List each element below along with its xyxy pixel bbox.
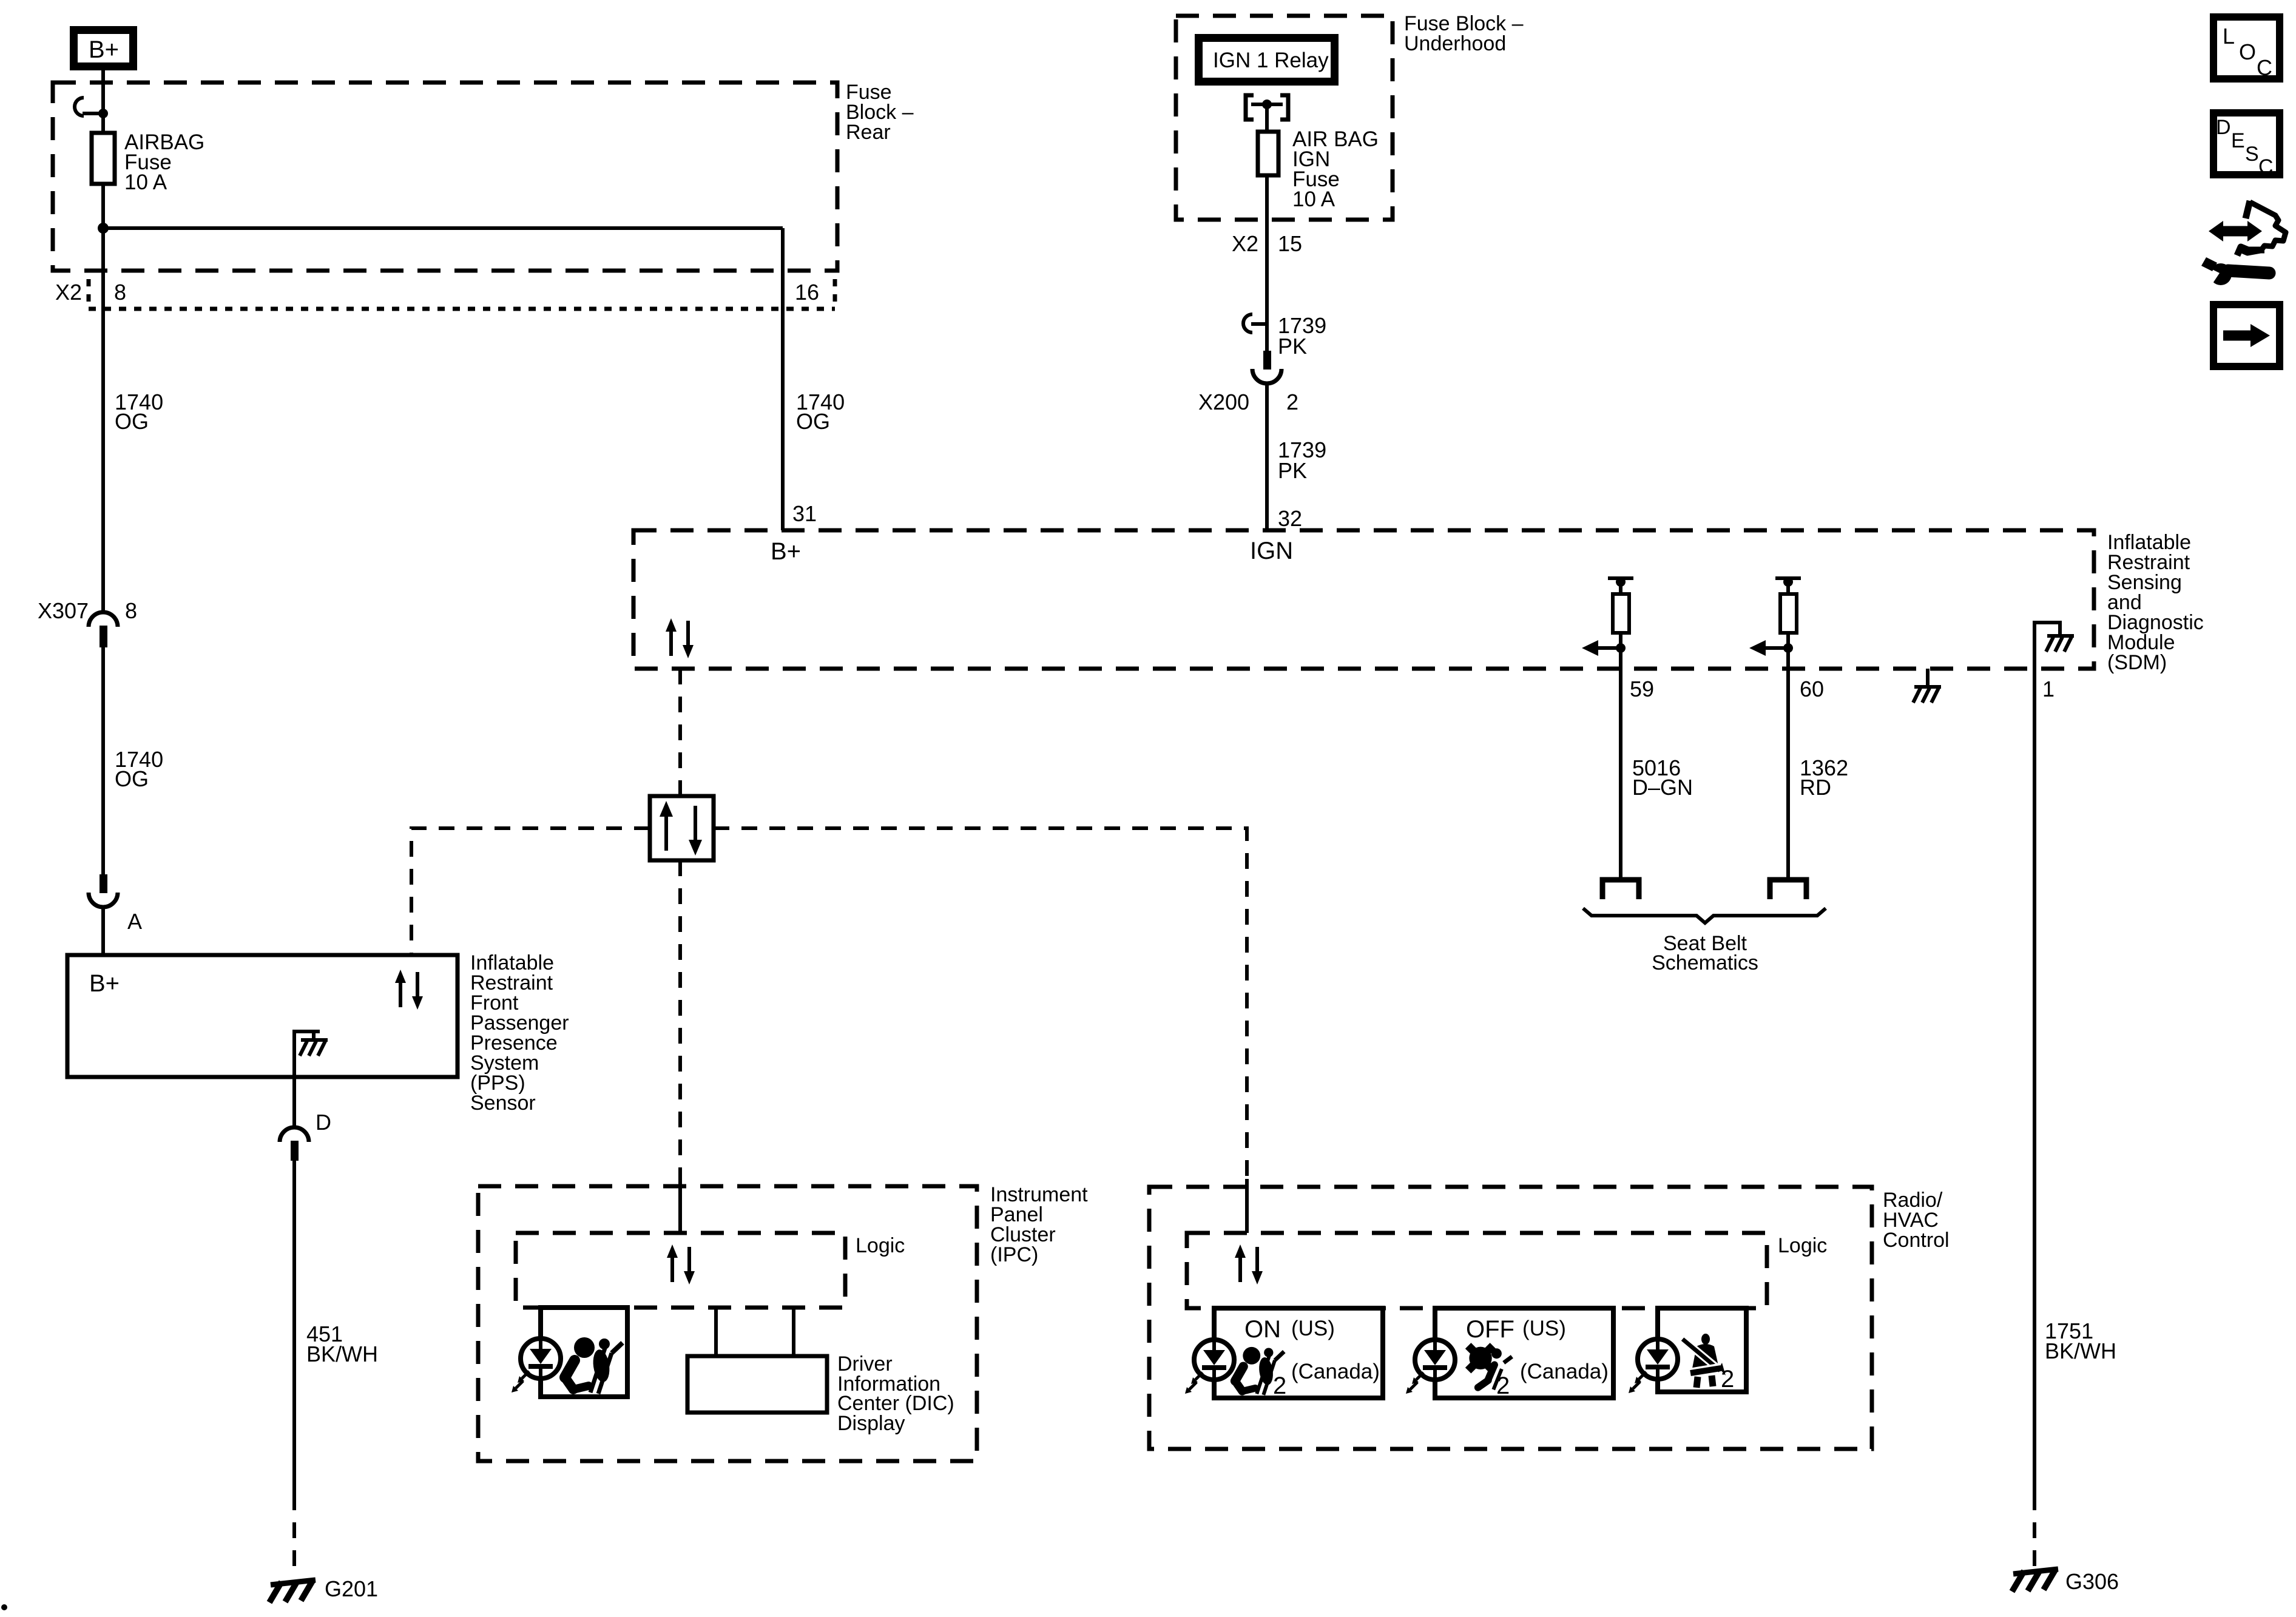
fuse block underhood box [1176,16,1393,220]
passenger airbag ON indicator cell [1214,1308,1383,1398]
wire label 1751 BK/WH [2045,1318,2116,1363]
svg-text:(Canada): (Canada) [1291,1360,1380,1383]
seat belt icon 2 [1683,1334,1734,1393]
svg-text:E: E [2231,129,2245,152]
wire label 1739 PK upper [1278,313,1326,359]
svg-text:Logic: Logic [856,1234,905,1257]
ON indicator LED [1194,1340,1234,1380]
power terminal B+ [74,30,133,67]
wire B+ to AIRBAG fuse [101,70,105,133]
DIC display legs [716,1308,794,1356]
ON label [1244,1316,1380,1383]
serial wire gateway to IPC [678,860,682,1179]
svg-text:(US): (US) [1522,1317,1566,1340]
SDM resistor at pin 59 [1582,577,1633,669]
radio HVAC label [1883,1189,1950,1252]
serial right branch solid entry [1245,1179,1249,1233]
svg-text:G201: G201 [325,1576,378,1601]
wire relay to AIR BAG IGN fuse [1265,104,1269,132]
wire X307 to A [101,647,105,874]
radio logic box [1187,1233,1767,1308]
AIR BAG IGN fuse label [1292,127,1379,211]
AIRBAG fuse label [124,130,204,194]
svg-text:32: 32 [1278,506,1302,531]
serial data gateway box [650,796,714,860]
serial wire SDM to gateway [678,669,682,796]
junction dot fuse feed [98,109,108,118]
wire X200 to SDM pin 32 [1265,383,1269,530]
PPS serial data arrows [395,970,423,1010]
ON airbag icon 2 [1235,1347,1287,1399]
svg-text:Sensor: Sensor [470,1092,536,1115]
wire 1751 BK/WH [2033,669,2036,1573]
SDM serial data arrows [666,618,694,658]
svg-text:C: C [2258,155,2274,178]
PPS internal ground [294,1031,328,1077]
radio HVAC module box [1149,1187,1872,1449]
svg-text:Schematics: Schematics [1652,951,1758,974]
wire pin 8 down from junction [101,228,105,614]
svg-text:2: 2 [1286,390,1298,414]
svg-text:OFF: OFF [1466,1316,1514,1343]
svg-text:Display: Display [837,1412,905,1435]
belt LED light rays [1629,1372,1646,1393]
DIC display box [687,1356,827,1413]
label X2 pin 8 pin 16 [55,280,819,305]
svg-text:2: 2 [1273,1372,1286,1399]
svg-text:(SDM): (SDM) [2107,651,2167,674]
PPS sensor label [470,951,569,1115]
service icon hand outline [2237,201,2286,255]
IPC module box [478,1186,977,1461]
page dot [1,1604,7,1610]
svg-text:G306: G306 [2065,1569,2119,1594]
svg-text:X2: X2 [1232,231,1258,256]
ground G306 [2012,1569,2119,1594]
svg-text:1: 1 [2042,677,2055,701]
svg-text:X200: X200 [1198,390,1249,414]
IPC logic serial arrows [667,1244,695,1284]
svg-text:PK: PK [1278,334,1307,359]
connector D [280,1110,331,1161]
service icon wrench [2198,257,2269,285]
SDM resistor at pin 60 [1749,577,1801,669]
svg-text:ON: ON [1244,1316,1281,1343]
svg-text:Rear: Rear [846,121,891,144]
pin labels 59 60 1 [1630,677,2055,701]
IGN 1 Relay box [1199,38,1335,82]
svg-text:B+: B+ [89,36,119,63]
svg-text:BK/WH: BK/WH [2045,1338,2116,1363]
svg-text:59: 59 [1630,677,1654,701]
wire label 451 BK/WH [306,1322,378,1366]
next page arrow icon [2213,305,2280,366]
svg-text:(US): (US) [1291,1317,1335,1340]
serial bus right branch to radio [714,828,1247,1179]
svg-text:OG: OG [115,766,149,791]
wire PPS to D [292,1077,296,1127]
belt indicator LED [1638,1339,1678,1379]
svg-text:D: D [2216,116,2231,139]
svg-text:Logic: Logic [1778,1234,1827,1257]
seat belt schematics label [1652,932,1758,974]
svg-text:L: L [2223,24,2235,49]
OFF crossed airbag icon 2 [1468,1346,1512,1399]
svg-text:D: D [316,1110,331,1135]
connector X2 dotted line [89,279,835,309]
wire pin 16 down to SDM pin 31 [781,228,785,530]
svg-text:OG: OG [115,409,149,434]
wire label 1739 PK lower [1278,437,1326,483]
IPC LED light rays [512,1371,529,1393]
svg-text:IGN: IGN [1250,538,1293,564]
IPC airbag indicator cell [541,1308,627,1397]
clip terminal at X200 [1243,314,1266,333]
SDM pin 1 internal ground [2034,623,2074,669]
wire 1362 RD [1786,669,1790,877]
wire fuse to X200 [1265,175,1269,351]
wire A to PPS box [101,907,105,955]
seat belt indicator cell [1658,1308,1746,1392]
svg-text:Underhood: Underhood [1404,32,1506,55]
wire label 1740 OG left lower [115,747,163,791]
svg-text:S: S [2245,143,2259,166]
IPC logic box [516,1233,845,1308]
svg-text:A: A [127,909,142,934]
svg-text:2: 2 [1721,1366,1734,1393]
fuse block rear box [53,83,837,271]
serial IPC solid entry [678,1179,682,1233]
wire label 1740 OG right [796,390,845,434]
wire label 5016 D-GN [1632,755,1693,800]
fuse AIR BAG IGN 10A [1258,132,1278,175]
svg-text:(IPC): (IPC) [990,1243,1038,1266]
wire label 1740 OG left upper [115,390,163,434]
svg-text:2: 2 [1496,1372,1510,1399]
junction dot B+ bus [98,223,109,234]
svg-text:16: 16 [795,280,819,305]
OFF LED light rays [1406,1372,1423,1394]
relay terminal brackets [1246,95,1288,120]
wire fuse to junction [101,184,105,228]
svg-text:OG: OG [796,409,830,434]
LOC icon [2213,17,2280,80]
svg-text:8: 8 [114,280,126,305]
SDM label [2107,531,2204,674]
svg-text:BK/WH: BK/WH [306,1342,378,1366]
wire 451 BK/WH [292,1161,296,1574]
wire label 1362 RD [1800,755,1848,800]
SDM case ground on bottom edge [1913,669,1941,703]
OFF indicator LED [1415,1340,1455,1380]
svg-text:IGN 1 Relay: IGN 1 Relay [1213,49,1329,72]
label X2 pin 15 [1232,231,1302,256]
svg-text:10 A: 10 A [124,170,167,194]
svg-text:X307: X307 [38,598,89,623]
DIC label [837,1352,954,1435]
IPC indicator LED [521,1338,561,1379]
IPC airbag warning icon [565,1337,623,1394]
ON LED light rays [1185,1372,1203,1394]
DESC icon [2213,113,2280,178]
fuse block underhood label [1404,12,1524,55]
inline connector A at PPS [89,874,142,934]
svg-text:PK: PK [1278,458,1307,483]
passenger airbag OFF indicator cell [1435,1308,1613,1398]
PPS sensor box [67,955,458,1077]
wire 5016 D-GN [1619,669,1622,877]
bus wire to pin 16 branch [103,226,783,230]
SDM module box [633,530,2094,669]
fuse block rear label [846,81,914,144]
svg-text:8: 8 [125,598,137,623]
svg-text:15: 15 [1278,231,1302,256]
fuse AIRBAG 10A [92,133,115,184]
svg-text:Control: Control [1883,1229,1950,1252]
seat belt harness connector 60 [1770,880,1806,899]
inline connector X307 pin 8 [38,598,137,647]
svg-text:60: 60 [1800,677,1824,701]
svg-text:31: 31 [792,501,817,526]
clip terminal at AIRBAG fuse [75,98,102,116]
ground G201 [269,1576,378,1602]
IPC label [990,1183,1088,1266]
serial bus left branch to PPS [411,828,650,955]
OFF label [1466,1316,1609,1383]
svg-text:B+: B+ [771,538,801,565]
inline connector X200 pin 2 [1198,351,1298,414]
svg-text:C: C [2257,55,2272,80]
service icon double arrow [2209,221,2262,241]
svg-text:D–GN: D–GN [1632,775,1693,800]
svg-text:X2: X2 [55,280,82,305]
svg-text:O: O [2239,39,2256,64]
svg-text:(Canada): (Canada) [1520,1360,1609,1383]
radio logic serial arrows [1235,1244,1263,1284]
seat belt brace [1583,908,1826,923]
svg-text:B+: B+ [89,970,120,997]
seat belt harness connector 59 [1602,880,1639,899]
svg-text:RD: RD [1800,775,1831,800]
svg-text:10 A: 10 A [1292,187,1335,211]
